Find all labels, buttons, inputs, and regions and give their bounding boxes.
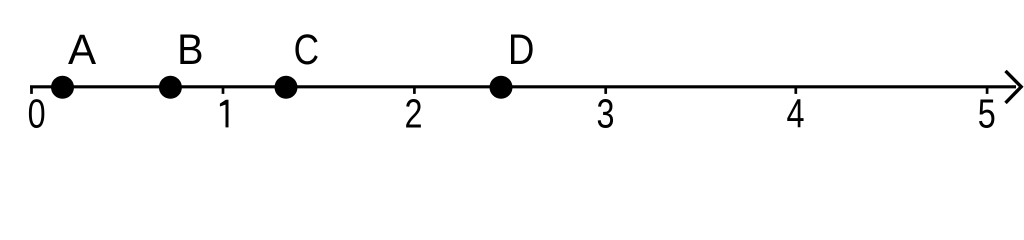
point A dot — [51, 76, 74, 99]
point B dot — [159, 76, 182, 99]
point C dot — [275, 76, 298, 99]
label 1 — [220, 100, 229, 128]
number line axis — [30, 85, 1016, 88]
svg-text:0: 0 — [28, 91, 46, 136]
svg-text:D: D — [508, 26, 534, 73]
tick 1 — [222, 86, 225, 94]
tick 0 — [30, 86, 33, 94]
svg-text:B: B — [177, 25, 203, 73]
svg-text:C: C — [294, 26, 319, 74]
svg-text:3: 3 — [596, 91, 614, 136]
svg-text:4: 4 — [786, 91, 804, 136]
arrowhead — [1006, 71, 1022, 103]
tick 2 — [413, 86, 416, 94]
svg-text:A: A — [68, 25, 97, 73]
tick 3 — [604, 86, 607, 94]
tick 5 — [986, 86, 989, 94]
tick 4 — [794, 86, 797, 94]
svg-text:2: 2 — [404, 91, 422, 136]
point D dot — [490, 76, 513, 99]
svg-text:5: 5 — [978, 91, 996, 136]
